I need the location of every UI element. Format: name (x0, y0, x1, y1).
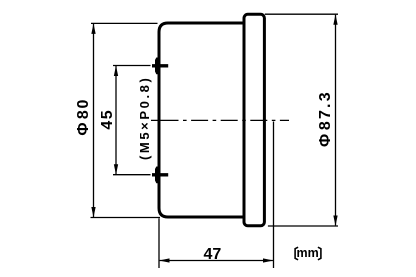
centerline (dash-dot axis) (151, 119, 289, 121)
mounting stud boss (bottom) (155, 167, 159, 184)
mounting stud crossbar (bottom) M5 stud (152, 173, 168, 176)
dimension phi80: arrow down (91, 207, 95, 218)
dimension phi87.3: extension line bottom (268, 225, 338, 227)
dimension phi80: extension line bottom (91, 217, 161, 219)
dimension phi80: dimension line (93, 24, 95, 217)
dimension 47: extension line left (158, 218, 160, 268)
dimension 45: dimension line (115, 66, 117, 174)
svg-text:(M5×P0.8): (M5×P0.8) (137, 76, 152, 160)
svg-text:Φ80: Φ80 (75, 98, 92, 136)
dimension 45: extension line bottom (113, 174, 151, 176)
units note bracket right (318, 247, 321, 260)
dimension 47: arrow right (263, 258, 274, 262)
svg-text:45: 45 (99, 109, 116, 130)
dimension 47: arrow left (159, 258, 170, 262)
dimension phi87.3: arrow up (333, 14, 337, 25)
svg-text:mm: mm (296, 246, 318, 260)
dimension 45: arrow down (114, 164, 118, 175)
bezel (front flange) (244, 14, 264, 226)
svg-text:Φ87.3: Φ87.3 (317, 90, 334, 147)
dimension 45: arrow up (114, 66, 118, 77)
dimension phi87.3: extension line top (265, 13, 338, 15)
gauge body (case, side view) (159, 23, 245, 217)
dimension phi87.3: dimension line (335, 15, 337, 226)
mounting stud crossbar (top) M5 stud (152, 64, 168, 67)
mounting stud boss (top) (155, 58, 159, 75)
dimension phi87.3: arrow down (333, 216, 337, 227)
units note bracket left (295, 247, 298, 260)
dimension phi80: extension line top (91, 22, 158, 24)
dimension phi80: arrow up (91, 23, 95, 34)
dimension 47: extension line right (273, 122, 275, 269)
dimension 47: dimension line (160, 260, 273, 262)
dimension 45: extension line top (113, 65, 151, 67)
svg-text:47: 47 (204, 246, 222, 263)
